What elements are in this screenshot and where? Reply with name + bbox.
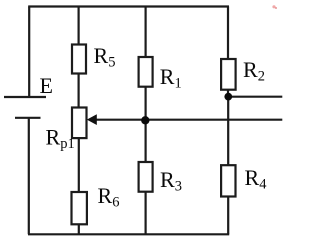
svg-text:R1: R1: [160, 64, 182, 92]
battery E top plate (long): [4, 96, 46, 98]
wire R2 to node B: [227, 90, 229, 97]
resistor R1: [139, 57, 153, 87]
wire left vertical upper (to battery): [28, 7, 30, 98]
wire left vertical lower (battery to bottom bus): [28, 118, 30, 235]
resistor R4: [221, 165, 235, 196]
potentiometer Rp1 body: [72, 108, 87, 139]
node B junction dot (R2/R4/output): [224, 93, 232, 101]
wire output terminal from node B: [228, 96, 282, 98]
svg-text:R5: R5: [94, 43, 116, 71]
svg-text:R2: R2: [243, 57, 265, 85]
wire R5 branch top: [77, 7, 79, 45]
wire R4 to bottom bus: [227, 197, 229, 235]
wire R5 to Rp1: [77, 74, 79, 108]
wire Rp1 to R6: [78, 138, 80, 192]
wire top horizontal bus: [28, 5, 229, 7]
wire potentiometer wiper output line: [96, 119, 283, 121]
resistor R5: [72, 45, 86, 74]
svg-text:R6: R6: [98, 183, 120, 211]
resistor R6: [72, 192, 87, 224]
wire R6 to bottom bus: [78, 224, 80, 234]
battery E bottom plate (short): [15, 117, 41, 119]
svg-text:R3: R3: [160, 167, 182, 195]
svg-text:R4: R4: [245, 165, 268, 193]
wire R1 to R3 through node: [145, 87, 147, 162]
wire R3 to bottom bus: [145, 192, 147, 235]
wire node B down to R4 (crosses wiper line): [227, 97, 229, 166]
wire R1 branch top: [145, 7, 147, 58]
svg-text:Rp1: Rp1: [46, 125, 75, 153]
resistor R3: [139, 162, 153, 192]
resistor R2: [221, 59, 236, 90]
stray red speck artifact: [272, 5, 275, 8]
wire R2 branch top: [227, 7, 229, 60]
wiper arrowhead: [87, 114, 97, 125]
svg-text:E: E: [40, 73, 53, 98]
node A junction dot (wiper to R1/R3): [141, 116, 149, 124]
wire bottom horizontal bus: [28, 233, 229, 235]
